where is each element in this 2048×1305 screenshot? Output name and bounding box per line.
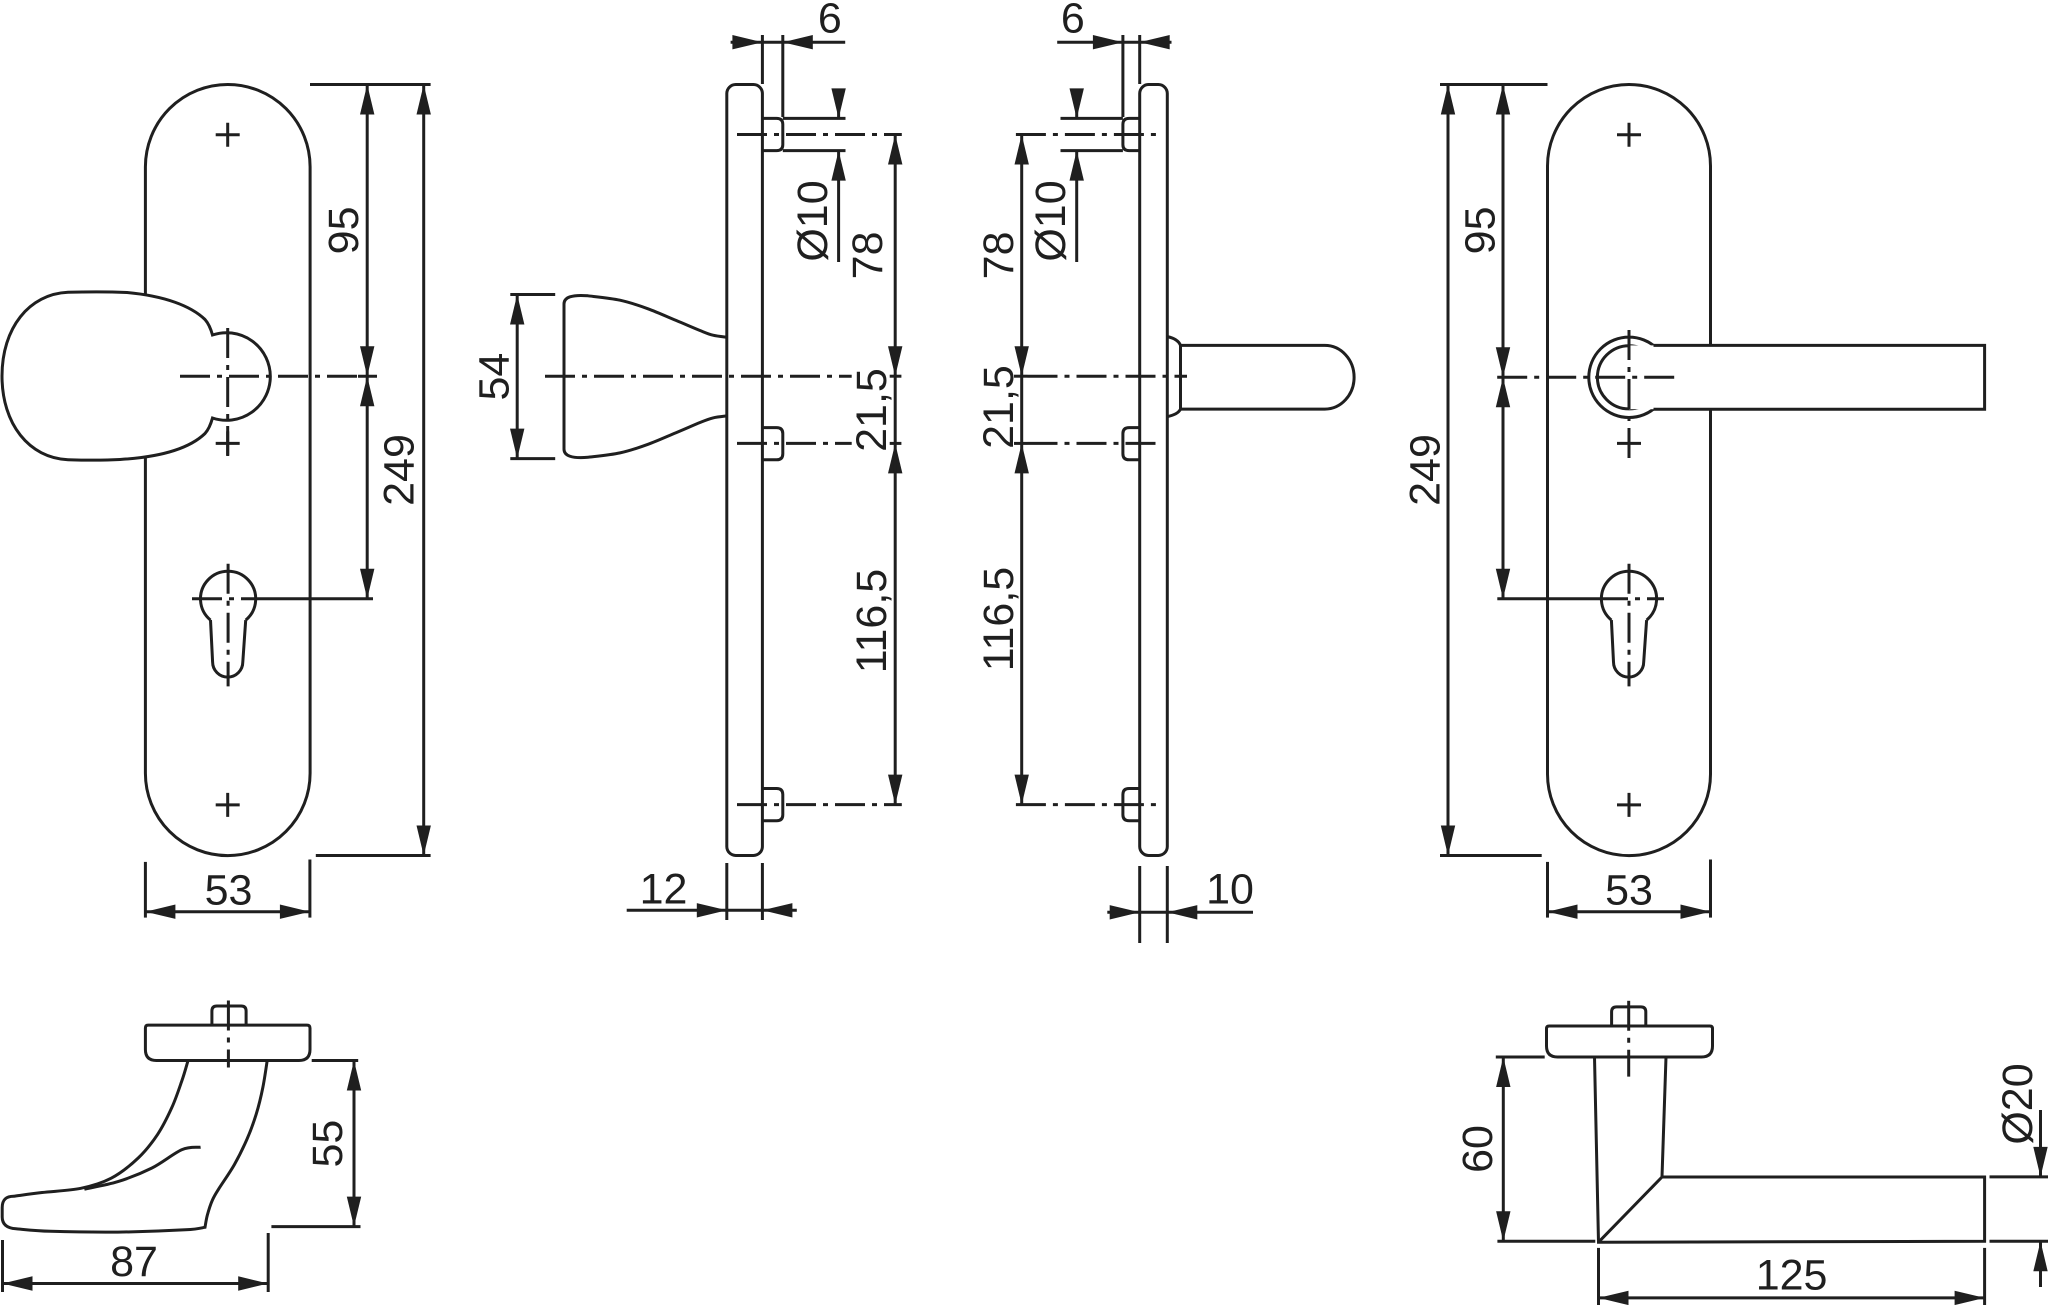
center line keyhole vertical (fig1) xyxy=(227,564,230,687)
extension line keyhole to dim (fig1) xyxy=(262,597,373,600)
dimension 95 (fig1) xyxy=(366,85,369,377)
backplate side view (lever side) xyxy=(1140,85,1168,856)
svg-text:87: 87 xyxy=(110,1238,158,1286)
extension line plate top (fig1) xyxy=(310,83,431,86)
dimension 125 (bottom-right) xyxy=(1597,1248,1600,1305)
dimension 53 (fig1) xyxy=(144,862,147,918)
center line knob axis horizontal (fig1) xyxy=(180,375,358,378)
center line pin middle (fig3) xyxy=(1028,442,1158,445)
center line knob axis (fig2) xyxy=(545,375,852,378)
knob profile crease line (bottom-left figure) xyxy=(84,1147,200,1189)
fixing pin middle (fig3) xyxy=(1123,428,1140,460)
screw mark middle (fig1) xyxy=(216,431,240,455)
dimension 12 (fig2) xyxy=(725,863,728,920)
dimension 116,5 (fig3) xyxy=(1020,443,1023,804)
screw mark bottom (fig4) xyxy=(1617,793,1641,817)
dimension 249 (fig1) xyxy=(422,85,425,856)
svg-text:53: 53 xyxy=(205,867,253,915)
extension line plate bottom (fig1) xyxy=(316,854,431,857)
svg-text:249: 249 xyxy=(376,434,424,506)
svg-text:78: 78 xyxy=(844,231,892,279)
svg-text:55: 55 xyxy=(304,1120,352,1168)
dimension 60 (bottom-right) xyxy=(1496,1056,1545,1059)
svg-text:54: 54 xyxy=(471,353,519,401)
lever handle miter line (bottom-right figure) xyxy=(1599,1177,1663,1242)
center line knob axis vertical (fig1) xyxy=(226,328,229,456)
dimension Ø10 (fig2) xyxy=(783,117,846,120)
dimension 78 (fig3) xyxy=(1020,135,1023,377)
backplate (front view, lever side) xyxy=(1548,85,1711,856)
dimension 54 (fig2) xyxy=(510,293,555,296)
fixing pin bottom (fig2) xyxy=(762,789,782,821)
fixing pin bottom (fig3) xyxy=(1123,789,1140,821)
svg-text:6: 6 xyxy=(1061,0,1085,43)
svg-text:116,5: 116,5 xyxy=(975,567,1023,671)
screw mark top (fig4) xyxy=(1617,123,1641,147)
dimension 87 (bottom-left) xyxy=(1,1240,4,1292)
lever spindle nub (bottom-right figure) xyxy=(1612,1007,1646,1026)
lever handle side view (grip) xyxy=(1167,337,1180,417)
dimension 95 (fig4) xyxy=(1502,85,1505,378)
center line keyhole horizontal (fig1) xyxy=(192,597,262,600)
extension line plate bottom (fig4) xyxy=(1440,854,1542,857)
svg-text:21,5: 21,5 xyxy=(975,365,1023,449)
dimension 10 (fig3) xyxy=(1138,866,1141,943)
knob (front view, cranked head) xyxy=(2,292,270,460)
center line keyhole horizontal (fig4) xyxy=(1598,597,1664,600)
dimension 249 (fig4) xyxy=(1447,85,1450,856)
euro-cylinder keyhole (right plate) xyxy=(1601,571,1656,620)
center line knob profile (bottom-left) xyxy=(227,1001,230,1068)
lever handle bar (fig4) xyxy=(1629,345,1985,409)
svg-text:78: 78 xyxy=(975,231,1023,279)
center line lever top view (bottom-right) xyxy=(1627,1001,1630,1077)
dimension Ø20 (bottom-right) xyxy=(1990,1175,2048,1178)
lever rose inner circle (fig4) xyxy=(1597,346,1660,409)
svg-text:95: 95 xyxy=(1456,206,1504,254)
extension line plate top (fig4) xyxy=(1440,83,1548,86)
dimension 6 (fig2) xyxy=(761,35,764,84)
center line keyhole vertical (fig4) xyxy=(1628,564,1631,687)
knob spindle nub (bottom-left figure) xyxy=(212,1006,246,1025)
svg-text:Ø10: Ø10 xyxy=(1027,180,1075,261)
backplate side view (knob side) xyxy=(727,85,763,856)
screw mark middle (fig4) xyxy=(1617,431,1641,455)
dimension knob axis to cylinder (fig1) xyxy=(366,376,369,599)
svg-text:95: 95 xyxy=(320,206,368,254)
knob profile cranked neck (bottom-left figure) xyxy=(2,1061,267,1233)
lever rose top view cap (bottom-right figure) xyxy=(1547,1026,1713,1057)
svg-text:6: 6 xyxy=(818,0,842,43)
fixing pin middle (fig2) xyxy=(762,428,782,460)
svg-text:12: 12 xyxy=(640,865,688,913)
screw mark bottom (fig1) xyxy=(216,793,240,817)
svg-text:Ø10: Ø10 xyxy=(789,180,837,261)
svg-text:60: 60 xyxy=(1454,1125,1502,1173)
dimension Ø10 (fig3) xyxy=(1061,117,1123,120)
svg-text:21,5: 21,5 xyxy=(848,368,896,452)
fixing pin top (fig3) xyxy=(1123,118,1140,150)
dimension 116,5 (fig2) xyxy=(894,443,897,804)
dimension 21,5 (fig3) xyxy=(1020,376,1023,443)
dimension 53 (fig4) xyxy=(1546,862,1549,918)
center line lever axis horizontal (fig4) xyxy=(1497,376,1677,379)
extension line keyhole to dim (fig4) xyxy=(1497,597,1598,600)
dimension lever axis to cylinder (fig4) xyxy=(1502,377,1505,598)
dimension 6 (fig3) xyxy=(1121,35,1124,117)
lever rose outer circle (fig4) xyxy=(1589,337,1669,417)
dimension 55 (bottom-left) xyxy=(312,1059,359,1062)
dimension 78 (fig2) xyxy=(894,135,897,377)
knob profile cap (bottom-left figure) xyxy=(145,1025,310,1060)
fixing pin top (fig2) xyxy=(762,118,782,150)
svg-text:Ø20: Ø20 xyxy=(1994,1063,2042,1144)
svg-text:116,5: 116,5 xyxy=(848,569,896,673)
center line rose vertical (fig4) xyxy=(1628,330,1631,459)
svg-text:53: 53 xyxy=(1605,867,1653,915)
svg-text:249: 249 xyxy=(1402,434,1450,506)
backplate (front view, knob side) xyxy=(145,85,310,856)
svg-text:10: 10 xyxy=(1206,865,1254,913)
knob profile (side view) xyxy=(564,295,727,457)
screw mark top (fig1) xyxy=(216,123,240,147)
lever handle top view (bottom-right figure) xyxy=(1595,1057,1985,1242)
dimension 21,5 (fig2) xyxy=(894,376,897,443)
center line lever axis (fig3) xyxy=(1028,375,1188,378)
center line pin bottom (fig2) xyxy=(737,803,902,806)
svg-text:125: 125 xyxy=(1756,1251,1828,1299)
center line pin middle (fig2) xyxy=(737,442,852,445)
center line pin bottom (fig3) xyxy=(1016,803,1157,806)
center line pin top (fig2) xyxy=(737,133,902,136)
euro-cylinder keyhole (left plate) xyxy=(201,571,256,620)
center line pin top (fig3) xyxy=(1016,133,1157,136)
